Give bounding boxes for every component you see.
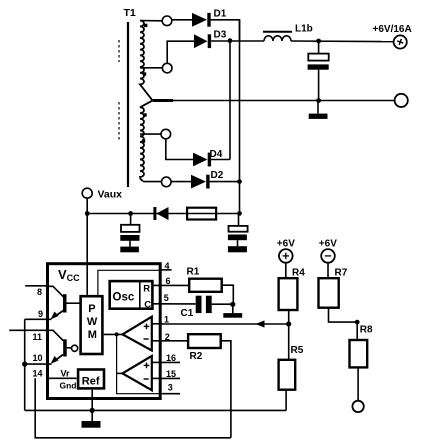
return line center tap to output terminal [153,100,395,102]
svg-text:P: P [88,303,95,315]
junction Vaux [85,211,90,216]
junction comparator output [115,332,119,336]
wire R4 to divider junction [288,311,290,359]
pin 3 wire internal [117,334,163,393]
transformer tap terminal circle 4 [162,177,172,187]
ground bar IC [82,421,101,428]
wire circle 1 to D1 anode [172,19,192,21]
wire R5 to ground rail [285,391,287,411]
secondary winding lower [140,101,152,181]
oscillator box Osc [110,281,153,309]
svg-text:M: M [88,329,97,341]
ground Vaux cap [129,241,131,247]
svg-text:R: R [143,283,150,294]
phase dot winding section 1 [144,24,147,27]
resistor R5 [279,360,296,390]
svg-text:14: 14 [33,368,43,378]
pin 9 wire [25,318,52,320]
ground rail line B [25,409,286,411]
diode D1 [192,13,207,27]
svg-text:C1: C1 [181,308,194,319]
svg-text:3: 3 [168,383,173,393]
wire Vaux terminal down [86,198,88,213]
pin 14 external wire [35,378,231,438]
junction Vaux cap [128,211,133,216]
wire rectified node down to D4 (line A) [229,41,231,160]
wire R2 to line C [221,341,231,438]
resistor R8 [350,340,368,367]
pin 8 wire [25,285,49,287]
junction D2 line B [237,179,242,184]
wire D1 cathode to corner and down [211,20,240,41]
svg-text:4: 4 [165,261,170,271]
wire Vaux down to IC Vcc [86,214,88,263]
pin 10 wire [25,363,52,365]
pin 4 wire internal [98,270,160,295]
transformer T1 core [127,22,129,187]
svg-text:6: 6 [166,276,171,286]
svg-text:9: 9 [38,309,43,319]
junction R1 C1 ground [230,302,235,307]
svg-text:R8: R8 [360,325,373,336]
svg-text:+6V: +6V [277,239,295,250]
resistor R7 [319,278,339,308]
transistor Q2 inversion bubble [72,345,78,351]
transistor Q1 base bar [63,294,67,312]
svg-text:Ref: Ref [82,376,100,388]
junction aux rectified node [237,211,242,216]
phase dot winding section 3 [143,113,146,116]
pin 3 stub external [163,393,181,395]
wire cap to return line [318,70,320,101]
svg-text:R1: R1 [187,266,200,277]
svg-text:T1: T1 [124,7,136,19]
wire tap to terminal circle 3 [140,133,161,135]
transistor Q2 emitter [54,355,64,362]
comparator 2 plus [144,363,150,369]
ground below return line [317,101,319,114]
wire +6V to R7 [327,263,329,277]
transformer tap terminal circle 2 [162,63,172,73]
junction cap return line [316,98,321,103]
wire Vcc into PWM [86,263,88,295]
secondary winding upper [140,21,153,101]
diode Vaux (pointing left) [153,207,156,220]
svg-text:10: 10 [33,353,43,363]
wire L1b to +6V terminal [291,40,394,43]
junction node D3/D4 [228,38,233,43]
pin 2 wire internal [152,340,163,342]
junction pin 10 [22,362,27,367]
junction ground rail [90,408,95,413]
feedback arrowhead [256,320,265,327]
junction R7 R8 [355,320,360,325]
+6V supply terminal 1 [279,249,293,263]
phase dot winding section 4 [142,139,145,142]
output terminal +6V/16A [394,35,407,48]
wire pin 9/10 bracket (V1) [24,319,26,410]
output terminal below R8 [352,401,363,412]
transformer primary dashed hint lower [118,102,120,142]
svg-text:R4: R4 [292,267,305,278]
comparator outputs to PWM [104,333,123,335]
svg-text:11: 11 [33,332,43,342]
svg-text:5: 5 [164,293,169,303]
resistor R1 [189,279,222,292]
transistor Q2 collector [49,330,64,341]
wire drop circle 3 to D4 [166,139,193,160]
center tap thick bar [153,99,174,102]
svg-text:16: 16 [166,353,176,363]
wire tap to terminal circle 2 [140,67,162,69]
wire R7 to R8 [329,308,358,339]
capacitor C1 [196,296,202,313]
Vaux rail [87,213,239,215]
ground aux cap [237,240,239,246]
wire Ref to ground [91,390,93,421]
transistor Q1 base wire to PWM [67,302,81,304]
diode D3 [194,34,208,48]
wire riser circle 2 to D3 [167,41,194,63]
wire winding bottom to terminal circle 4 [143,181,162,183]
pin 14 wire internal to Ref [46,377,77,379]
pin 2 wire to R2 [163,340,189,342]
wire C1 to ground junction [212,303,234,305]
IC U1 outline [48,264,161,399]
svg-text:D4: D4 [210,149,223,160]
transistor Q2 base bar [63,339,66,356]
PWM box [81,296,103,354]
transistor Q2 base wire [67,347,72,349]
transformer tap terminal circle 1 [162,16,172,26]
wire R1 to ground junction [222,285,234,304]
diode D4 [193,153,208,167]
pin 15 stub external [163,377,181,379]
comparator 2 [123,356,152,390]
transistor Q1 emitter [54,311,64,318]
wire +6V to R4 [285,263,287,277]
resistor R4 [279,278,298,310]
resistor R2 [188,334,221,348]
Vaux terminal [82,188,92,198]
svg-text:Vaux: Vaux [98,188,123,200]
pin 6 wire to R1 [152,284,189,286]
junction L1b cap [316,39,321,44]
pin 15 wire internal [152,377,163,379]
aux filter capacitor [238,214,240,226]
comparator 2 output stub [117,372,123,374]
transformer primary dashed hint upper [118,40,120,62]
wire winding top to terminal circle 1 [140,20,162,22]
wire R8 to terminal [357,367,359,401]
svg-text:W: W [87,316,98,328]
wire D2 cathode to line B [210,181,240,183]
wire D3 cathode to L1b [211,40,264,42]
svg-text:D1: D1 [214,9,227,20]
diode D2 [191,175,206,189]
svg-text:8: 8 [37,287,42,297]
pin 1 wire internal [152,323,163,325]
svg-text:R5: R5 [291,345,304,356]
comparator 1 (error amp) [123,317,152,351]
svg-text:Gnd: Gnd [60,381,77,391]
wire D4 cathode to line A [211,159,230,161]
inductor L1b core bar [263,31,292,33]
transistor Q1 collector [49,286,64,297]
pin 4 stub external [161,269,172,271]
junction R4 R5 divider [286,321,291,326]
reference box Ref [78,370,104,389]
pin 16 stub external [163,361,181,363]
output filter capacitor stub [318,41,320,54]
pin 5 wire to C1 [152,303,195,305]
output filter capacitor [308,54,328,61]
Vaux filter capacitor [130,214,132,225]
phase dot winding section 2 [143,72,146,75]
svg-text:Osc: Osc [113,292,135,304]
svg-text:+6V: +6V [319,239,337,250]
resistor Vaux series [187,208,216,220]
ground R1 C1 [232,304,234,313]
svg-text:1: 1 [164,315,169,325]
svg-text:R7: R7 [335,267,348,278]
svg-text:Vr: Vr [61,369,71,379]
svg-text:15: 15 [166,369,176,379]
svg-text:L1b: L1b [295,24,313,35]
wire circle 4 to D2 anode [171,181,191,183]
oscillator divider [139,280,141,310]
pin 16 wire internal [152,361,163,363]
comparator 2 minus [144,378,149,380]
svg-text:R2: R2 [190,351,203,362]
transformer tap terminal circle 3 [161,129,171,139]
pin 1 feedback line [163,323,289,325]
svg-text:C: C [144,300,151,311]
comparator 1 plus [144,324,150,330]
svg-text:D3: D3 [214,30,227,41]
pin 11 wire [9,329,49,331]
comparator 1 minus [144,338,149,340]
svg-text:+6V/16A: +6V/16A [373,24,412,35]
output return terminal [395,94,408,107]
+6V supply terminal 2 [321,249,335,263]
inductor L1b [264,36,291,41]
wire D1 down to D2 and aux cap (line B) [239,20,241,214]
svg-text:D2: D2 [211,170,224,181]
